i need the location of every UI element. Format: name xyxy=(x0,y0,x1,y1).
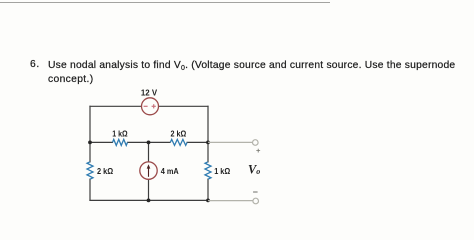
faint scan line artifact at top xyxy=(0,2,330,3)
bottom output terminal xyxy=(253,198,259,204)
top output terminal xyxy=(253,140,259,146)
voltage source V=12V circle xyxy=(142,98,159,115)
wire: middle horizontal left xyxy=(90,141,113,143)
svg-text:1 kΩ: 1 kΩ xyxy=(112,128,127,138)
svg-text:−: − xyxy=(253,187,258,197)
resistor R=2k left vertical zigzag xyxy=(87,162,93,179)
junction dot center-bottom xyxy=(147,199,151,203)
resistor R=1k horizontal zigzag xyxy=(113,139,128,145)
wire: left vertical (bottom part) xyxy=(89,179,91,202)
wire: bottom horizontal xyxy=(89,199,208,201)
svg-text:+: + xyxy=(256,146,261,155)
wire: right vertical bottom part xyxy=(207,179,209,202)
junction dot right-bottom xyxy=(206,199,210,203)
junction dot center-middle xyxy=(147,141,151,145)
problem number xyxy=(30,59,40,70)
resistor R=2k horizontal zigzag xyxy=(170,139,187,145)
wire: middle horizontal center xyxy=(127,141,171,143)
wire: right vertical top part xyxy=(207,106,209,163)
svg-text:4 mA: 4 mA xyxy=(161,166,179,176)
wire: gray lead to top output terminal xyxy=(208,141,252,143)
voltage source minus sign xyxy=(144,105,148,107)
wire: gray lead to bottom output terminal xyxy=(208,200,253,202)
wire: middle horizontal right xyxy=(187,141,209,143)
junction dot right-middle xyxy=(206,141,210,145)
svg-text:2 kΩ: 2 kΩ xyxy=(171,128,187,138)
wire: middle vertical above current source xyxy=(148,142,150,162)
wire: left vertical (top part) xyxy=(89,106,91,163)
wire: middle vertical below current source xyxy=(148,179,150,200)
current source arrow xyxy=(148,167,150,177)
current source 4mA circle xyxy=(140,162,157,179)
wire: top right segment xyxy=(159,105,209,107)
svg-text:Vo: Vo xyxy=(248,162,260,176)
svg-text:12 V: 12 V xyxy=(141,88,157,98)
svg-text:1 kΩ: 1 kΩ xyxy=(214,166,230,176)
problem statement text xyxy=(0,58,474,60)
wire: top left segment xyxy=(89,105,141,107)
voltage source plus sign xyxy=(152,105,156,107)
svg-text:2 kΩ: 2 kΩ xyxy=(97,166,113,176)
junction dot left-middle xyxy=(88,141,92,145)
resistor R=1k right vertical zigzag xyxy=(205,162,211,179)
